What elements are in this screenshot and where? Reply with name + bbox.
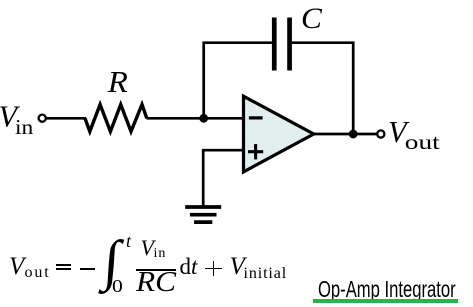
node Vout label	[388, 115, 440, 154]
resistor R	[85, 105, 147, 132]
ground	[185, 207, 221, 222]
capacitor C	[272, 18, 292, 71]
junction node output	[349, 130, 358, 139]
green underline	[313, 299, 458, 303]
wire resistor to op-amp inverting input	[147, 117, 244, 120]
equation Vinitial term	[230, 254, 245, 279]
equation equals sign	[56, 264, 71, 266]
wire capacitor to output node	[292, 43, 353, 134]
equation plus sign	[205, 268, 222, 270]
wire op-amp output	[314, 133, 377, 136]
equation fraction bar	[136, 269, 176, 271]
title Op-Amp Integrator	[318, 278, 456, 301]
svg-text:R: R	[107, 65, 128, 99]
wire non-inverting input to ground	[203, 150, 243, 206]
equation fraction denominator RC	[136, 269, 176, 297]
wire feedback riser left	[204, 43, 272, 119]
svg-text:in: in	[15, 115, 33, 139]
equation integral lower limit 0	[112, 277, 123, 295]
equation integral sign	[101, 233, 121, 289]
equation minus sign	[80, 268, 95, 270]
terminal Vout (open circle)	[377, 130, 384, 137]
equation integral upper limit t	[126, 232, 131, 250]
junction node A (inverting input node)	[199, 114, 208, 123]
wire Vin terminal to resistor	[47, 117, 86, 120]
node Vin label	[0, 100, 33, 139]
equation dt term	[180, 255, 198, 278]
op-amp U1	[244, 96, 314, 172]
equation fraction numerator Vin	[141, 237, 154, 259]
svg-text:C: C	[301, 2, 323, 35]
pin minus (inverting input marker)	[249, 116, 263, 119]
terminal Vin (open circle)	[39, 115, 46, 122]
svg-text:out: out	[405, 131, 440, 154]
pin plus (non-inverting input marker)	[248, 144, 263, 159]
equation Vout term	[9, 254, 24, 279]
